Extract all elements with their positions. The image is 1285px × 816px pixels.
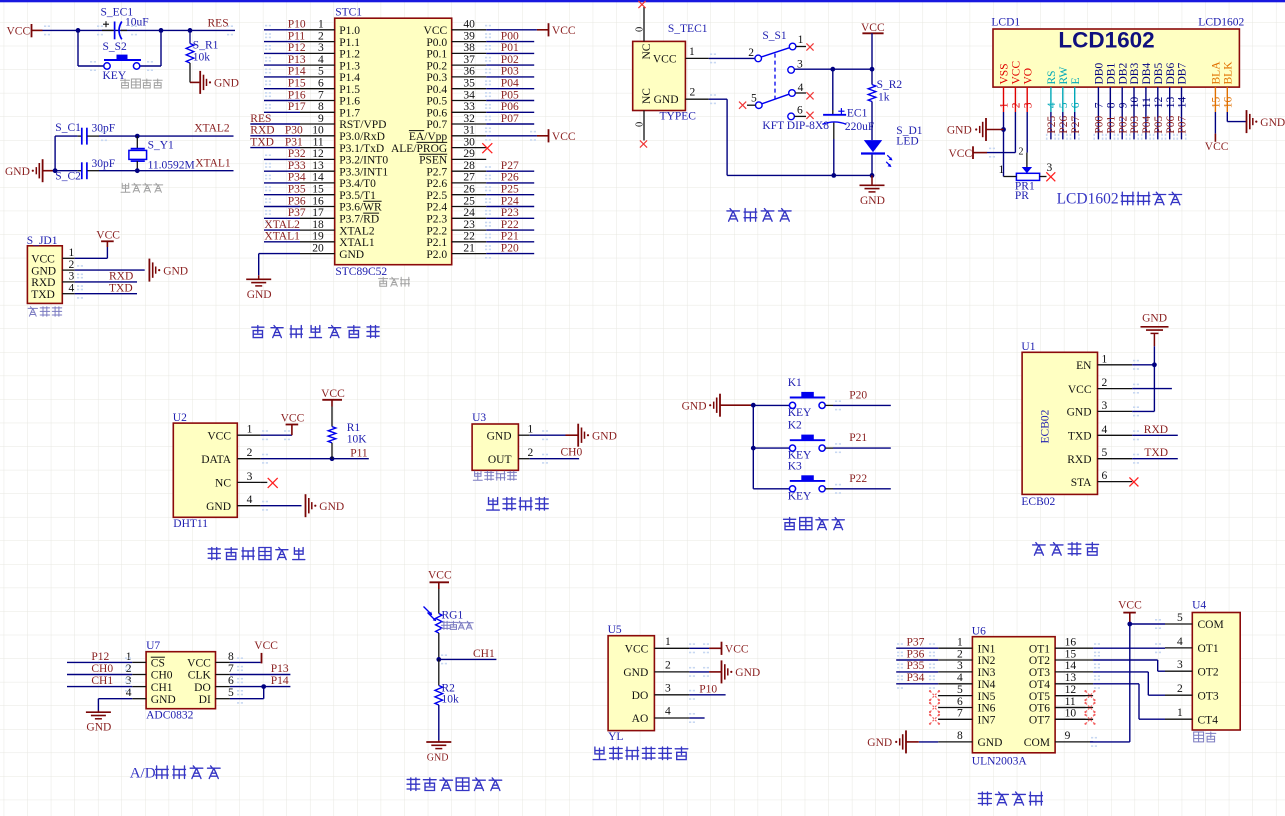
svg-text:P0.6: P0.6 — [426, 108, 447, 120]
LCD1 pin 14 (DB7) — [1177, 63, 1189, 140]
svg-text:RST/VPD: RST/VPD — [339, 119, 386, 131]
svg-text:LCD1602: LCD1602 — [1057, 190, 1119, 207]
svg-text:2: 2 — [126, 663, 132, 675]
svg-text:P1.5: P1.5 — [339, 84, 360, 96]
svg-text:GND: GND — [654, 94, 679, 106]
svg-text:P1.3: P1.3 — [339, 60, 360, 72]
LCD1 pin 4 (RS) — [1046, 70, 1058, 139]
svg-text:KFT DIP-8X8: KFT DIP-8X8 — [762, 120, 829, 132]
module U1 ECB02 body — [1021, 341, 1097, 508]
resistor R1 10K — [328, 407, 367, 459]
svg-text:A/D: A/D — [130, 765, 156, 781]
svg-text:U2: U2 — [173, 412, 187, 424]
net label TXD (download) — [109, 283, 133, 295]
svg-text:P33: P33 — [288, 160, 306, 172]
svg-text:14: 14 — [1065, 660, 1077, 672]
sensor U2 DHT11 body — [173, 412, 238, 530]
svg-text:COM: COM — [1198, 619, 1224, 631]
svg-text:6: 6 — [1102, 470, 1108, 482]
power ground GND (DHT11 pin4) — [306, 494, 345, 517]
STC1 pin 15 (P3.5) — [264, 184, 376, 202]
svg-text:12: 12 — [1065, 684, 1077, 696]
svg-text:16: 16 — [1065, 637, 1077, 649]
capacitor EC1 220uF (electrolytic) — [822, 69, 874, 175]
LCD pin2 VCC wire — [987, 112, 1015, 153]
svg-text:P01: P01 — [1106, 115, 1118, 133]
svg-text:2: 2 — [1177, 683, 1183, 695]
ADC U7 ADC0832 body — [146, 640, 215, 721]
svg-text:P2.0: P2.0 — [426, 249, 447, 261]
LCD1 pin 8 (DB1) — [1106, 63, 1118, 140]
svg-text:VCC: VCC — [254, 640, 278, 652]
svg-text:P31: P31 — [285, 136, 303, 148]
svg-text:STC1: STC1 — [335, 7, 362, 19]
STC1 pin 5 (P1.4) — [264, 66, 360, 84]
svg-text:ALE/PROG: ALE/PROG — [391, 143, 447, 155]
no-ERC cross at S_S1 pin 4 — [806, 92, 813, 99]
svg-text:E: E — [1070, 77, 1082, 84]
svg-text:P07: P07 — [1177, 115, 1189, 133]
svg-text:6: 6 — [318, 78, 324, 90]
U5 pin 2 (GND) — [623, 660, 721, 680]
wire cap-left link — [54, 136, 56, 171]
svg-text:P16: P16 — [288, 89, 306, 101]
svg-text:P27: P27 — [1070, 115, 1082, 133]
push button K2 KEY / net P21 — [753, 420, 891, 462]
STC1 pin 23 (P2.2) — [426, 219, 534, 237]
svg-text:P23: P23 — [501, 207, 519, 219]
wire VCC to U4 COM — [1130, 620, 1165, 628]
svg-text:P2.1: P2.1 — [426, 237, 447, 249]
svg-text:5: 5 — [1177, 612, 1183, 624]
U7 pin 7 (CLK) — [188, 663, 291, 682]
U6 pin 13 (OT4) — [1029, 672, 1165, 719]
svg-text:P06: P06 — [1165, 115, 1177, 133]
svg-text:R1: R1 — [347, 422, 361, 434]
svg-text:38: 38 — [463, 42, 475, 54]
LCD pin3 VO wire to pot wiper — [1026, 112, 1028, 153]
svg-text:VCC: VCC — [861, 22, 885, 34]
svg-text:CH1: CH1 — [151, 682, 173, 694]
no-ERC cross at S_S1 pin 6 — [806, 112, 813, 119]
no-ERC cross at S_S1 pin 5 — [739, 102, 746, 109]
svg-text:9: 9 — [318, 113, 324, 125]
svg-text:1: 1 — [247, 424, 253, 436]
U3 pin 1 (GND) — [487, 424, 566, 443]
svg-text:ULN2003A: ULN2003A — [972, 755, 1028, 767]
svg-text:IN6: IN6 — [978, 703, 996, 715]
STC1 pin 13 (P3.3) — [264, 160, 388, 178]
photoresistor RG1 — [424, 589, 464, 659]
power ground GND (reset) — [190, 71, 239, 94]
U1 pin 3 (GND) — [1067, 400, 1155, 419]
svg-text:10: 10 — [312, 125, 324, 137]
svg-text:OT3: OT3 — [1198, 690, 1219, 702]
svg-text:TXD: TXD — [109, 283, 133, 295]
svg-text:P12: P12 — [288, 42, 306, 54]
svg-text:1: 1 — [1177, 707, 1183, 719]
svg-text:3: 3 — [665, 683, 671, 695]
U6 pin 4 (IN4) — [896, 672, 995, 691]
U1 pin 5 (RXD) — [1067, 447, 1178, 466]
svg-text:RXD: RXD — [31, 277, 55, 289]
U7 pin 1 (CS) — [67, 651, 165, 670]
svg-text:VCC: VCC — [725, 644, 749, 656]
svg-text:4: 4 — [1102, 424, 1108, 436]
svg-text:VCC: VCC — [653, 54, 677, 66]
svg-text:GND: GND — [592, 430, 617, 442]
svg-text:10: 10 — [1065, 708, 1077, 720]
svg-text:2: 2 — [748, 47, 754, 59]
power ground GND (download port) — [149, 259, 188, 282]
svg-text:GND: GND — [427, 753, 449, 764]
svg-text:9: 9 — [1117, 102, 1129, 108]
svg-text:P24: P24 — [501, 195, 519, 207]
title 'LCD1602 display circuit' (LCD1602显示电路) — [1057, 190, 1182, 207]
junction reset-left — [76, 28, 81, 33]
svg-text:2: 2 — [528, 447, 534, 459]
svg-text:XTAL2: XTAL2 — [264, 219, 300, 231]
power ground GND (LCD left) — [947, 118, 1004, 141]
STC1 pin 35 (P0.4) — [426, 78, 534, 96]
svg-text:S_C1: S_C1 — [55, 122, 81, 134]
net label RXD (download) — [109, 271, 133, 283]
no-ERC cross at PR1 pin 3 — [1046, 172, 1055, 181]
svg-text:7: 7 — [957, 708, 963, 720]
svg-text:24: 24 — [463, 207, 475, 219]
svg-text:EA/Vpp: EA/Vpp — [409, 131, 448, 143]
svg-text:TXD: TXD — [31, 289, 55, 301]
svg-text:6: 6 — [957, 696, 963, 708]
svg-text:DB4: DB4 — [1141, 63, 1153, 85]
title 'wind speed detection' (风速检测) — [487, 498, 549, 511]
svg-text:5: 5 — [1102, 447, 1108, 459]
svg-text:22: 22 — [463, 231, 475, 243]
svg-text:IN1: IN1 — [978, 643, 996, 655]
svg-text:RXD: RXD — [250, 125, 274, 137]
U6 pin 16 (OT1) — [1029, 637, 1165, 656]
LCD1 pin 10 (DB3) — [1129, 63, 1141, 140]
power port VCC (download port) — [96, 230, 120, 247]
U4 pin 1 (CT4) — [1165, 707, 1218, 726]
STC1 pin 20 (GND) — [259, 242, 364, 275]
svg-text:P15: P15 — [288, 78, 306, 90]
U5 pin 1 (VCC) — [625, 636, 722, 656]
power ground GND (MCU pin20) — [246, 275, 271, 301]
svg-text:VCC: VCC — [31, 254, 55, 266]
svg-text:P2.5: P2.5 — [426, 190, 447, 202]
svg-text:15: 15 — [312, 184, 324, 196]
svg-text:37: 37 — [463, 54, 475, 66]
svg-text:NC: NC — [215, 478, 231, 490]
STC1 pin 29 (PSEN) — [419, 148, 486, 166]
title 'stepper motor' (步进电机) — [978, 792, 1042, 805]
title 'light collection circuit' (光照采集电路) — [407, 778, 502, 791]
STC1 pin 9 (RST) — [250, 113, 386, 131]
svg-text:U3: U3 — [472, 412, 486, 424]
svg-text:GND: GND — [206, 501, 231, 513]
power port VCC (U5 pin1) — [722, 642, 749, 656]
svg-text:1: 1 — [68, 247, 74, 259]
svg-text:BLA: BLA — [1211, 61, 1223, 85]
comment 'key reset' (按键复位) — [121, 79, 163, 88]
svg-text:P0.2: P0.2 — [426, 60, 447, 72]
U6 pin 12 (OT5) — [1029, 684, 1096, 703]
svg-text:10uF: 10uF — [125, 16, 149, 28]
power ground GND (U3) — [566, 424, 617, 447]
svg-text:GND: GND — [1067, 407, 1092, 419]
svg-text:PR: PR — [1015, 190, 1029, 202]
power port VCC (LCD) — [949, 146, 996, 160]
svg-text:S_R2: S_R2 — [877, 79, 903, 91]
comment 'wind detect' small (风速检测) — [473, 471, 516, 480]
wire node to RES — [161, 26, 235, 34]
svg-text:TXD: TXD — [1144, 447, 1168, 459]
LCD1 pin 2 (VCC) — [1011, 61, 1023, 112]
svg-text:2: 2 — [690, 87, 696, 99]
U4 pin 5 (COM) — [1165, 612, 1224, 631]
svg-text:S_C2: S_C2 — [55, 170, 81, 182]
wire XTAL1 — [99, 170, 234, 172]
power port VCC (U7 pin8) — [254, 640, 278, 663]
svg-text:8: 8 — [228, 651, 234, 663]
svg-text:DO: DO — [194, 682, 211, 694]
svg-text:VCC: VCC — [424, 25, 448, 37]
LCD pin16 BLK wire to GND — [1227, 112, 1246, 122]
U6 pin 14 (OT3) — [1029, 660, 1165, 695]
svg-text:1k: 1k — [878, 92, 890, 104]
svg-text:GND: GND — [151, 694, 176, 706]
comment 'download port' (下载口) — [28, 307, 62, 317]
svg-text:VCC: VCC — [428, 570, 452, 582]
svg-text:VO: VO — [1022, 68, 1034, 85]
STC1 pin 24 (P2.3) — [426, 207, 534, 225]
STC1 pin 31 (EA/Vpp) — [409, 125, 576, 143]
svg-text:15: 15 — [1211, 96, 1223, 108]
svg-text:RS: RS — [1046, 70, 1058, 84]
svg-text:5: 5 — [957, 684, 963, 696]
push button K3 KEY / net P22 — [753, 460, 891, 502]
svg-text:NC: NC — [641, 88, 653, 104]
svg-text:7: 7 — [318, 89, 324, 101]
svg-text:7: 7 — [1094, 102, 1106, 108]
svg-text:P1.6: P1.6 — [339, 96, 360, 108]
resistor S_R2 1k — [868, 69, 902, 140]
junction xtal1 — [135, 168, 140, 173]
svg-text:VSS: VSS — [999, 63, 1011, 84]
svg-text:P17: P17 — [288, 101, 306, 113]
STC1 pin 22 (P2.1) — [426, 231, 534, 249]
svg-text:DHT11: DHT11 — [173, 518, 208, 530]
U2 pin 2 (DATA) — [201, 447, 369, 466]
svg-text:U1: U1 — [1021, 341, 1035, 353]
wire S_S1 pin3 to VCC rail — [794, 68, 872, 70]
STC1 pin 3 (P1.2) — [264, 42, 360, 60]
U6 pin 5 (IN5) — [929, 684, 996, 703]
svg-text:P2.2: P2.2 — [426, 225, 447, 237]
U6 pin 8 (GND) — [919, 730, 1003, 749]
resistor R2 10k — [435, 659, 459, 740]
svg-text:P01: P01 — [501, 42, 519, 54]
svg-text:20: 20 — [312, 242, 324, 254]
junction U1 EN — [1152, 362, 1157, 367]
U7 pin 3 (CH1) — [67, 675, 173, 694]
svg-text:P1.4: P1.4 — [339, 72, 360, 84]
svg-text:DO: DO — [632, 690, 649, 702]
svg-text:ECB02: ECB02 — [1040, 409, 1052, 443]
svg-text:P02: P02 — [501, 54, 519, 66]
S_TEC1 top pin 0 with no-ERC cross — [635, 1, 646, 42]
power port VCC (R1 top) — [321, 388, 345, 406]
svg-text:GND: GND — [86, 722, 111, 734]
svg-text:GND: GND — [163, 265, 188, 277]
svg-text:P34: P34 — [288, 172, 306, 184]
svg-text:TXD: TXD — [1068, 431, 1092, 443]
svg-text:2: 2 — [957, 648, 963, 660]
svg-text:1: 1 — [318, 19, 324, 31]
svg-text:VCC: VCC — [552, 131, 576, 143]
svg-text:4: 4 — [68, 283, 74, 295]
svg-text:GND: GND — [31, 265, 56, 277]
U7 pin 6 (DO) — [194, 675, 290, 694]
LED S_D1 — [861, 125, 923, 176]
svg-text:39: 39 — [463, 30, 475, 42]
junction EC1 bottom — [831, 173, 836, 178]
LCD1 pin 6 (E) — [1070, 77, 1082, 139]
junction key rail K1 — [751, 403, 756, 408]
svg-text:ADC0832: ADC0832 — [146, 709, 194, 721]
svg-text:25: 25 — [463, 195, 475, 207]
svg-text:P03: P03 — [501, 66, 519, 78]
svg-text:4: 4 — [798, 82, 804, 94]
STC1 pin 33 (P0.6) — [426, 101, 534, 119]
svg-text:P25: P25 — [501, 184, 519, 196]
U6 pin 11 (OT6) — [1029, 696, 1096, 715]
svg-text:OT2: OT2 — [1029, 655, 1050, 667]
S_JD1 pin 2 (GND) — [31, 259, 145, 277]
STC1 pin 12 (P3.2) — [264, 148, 388, 166]
svg-text:4: 4 — [126, 687, 132, 699]
svg-text:18: 18 — [312, 219, 324, 231]
svg-text:IN4: IN4 — [978, 679, 996, 691]
svg-text:P32: P32 — [288, 148, 306, 160]
svg-text:XTAL2: XTAL2 — [194, 123, 230, 135]
svg-text:GND: GND — [339, 249, 364, 261]
U6 pin 1 (IN1) — [896, 637, 995, 656]
title 'power circuit' (电源电路) — [727, 209, 791, 222]
svg-text:P00: P00 — [1094, 115, 1106, 133]
U1 pin 2 (VCC) — [1068, 377, 1172, 396]
svg-text:11.0592M: 11.0592M — [148, 160, 195, 172]
U6 pin 2 (IN2) — [896, 648, 995, 667]
svg-text:K1: K1 — [788, 377, 802, 389]
capacitor S_EC1 10uF — [101, 6, 149, 39]
svg-text:5: 5 — [228, 687, 234, 699]
svg-text:6: 6 — [1070, 102, 1082, 108]
svg-text:U7: U7 — [146, 640, 160, 652]
svg-text:17: 17 — [312, 207, 324, 219]
svg-text:VCC: VCC — [96, 230, 120, 242]
svg-text:5: 5 — [318, 66, 324, 78]
net label CH0 — [561, 447, 583, 459]
svg-text:P3.0/RxD: P3.0/RxD — [339, 131, 385, 143]
svg-text:OT6: OT6 — [1029, 703, 1050, 715]
LCD1 pin 13 (DB6) — [1165, 63, 1177, 140]
svg-text:IN7: IN7 — [978, 715, 996, 727]
U4 pin 4 (OT1) — [1165, 636, 1219, 655]
svg-text:P05: P05 — [501, 89, 519, 101]
STC1 pin 30 (ALE/PROG) — [391, 136, 492, 154]
svg-text:11: 11 — [313, 136, 324, 148]
U5 pin 3 (DO) — [632, 683, 726, 703]
svg-text:12: 12 — [1153, 96, 1165, 108]
svg-text:OUT: OUT — [488, 454, 512, 466]
svg-text:1: 1 — [689, 46, 695, 58]
svg-text:GND: GND — [623, 667, 648, 679]
svg-text:4: 4 — [1046, 102, 1058, 108]
svg-text:3: 3 — [247, 471, 253, 483]
svg-text:P27: P27 — [501, 160, 519, 172]
svg-text:35: 35 — [463, 78, 475, 90]
svg-text:OT7: OT7 — [1029, 715, 1050, 727]
svg-text:XTAL2: XTAL2 — [339, 225, 375, 237]
STC1 pin 28 (P2.7) — [426, 160, 534, 178]
svg-text:30pF: 30pF — [92, 123, 116, 135]
svg-text:P37: P37 — [907, 637, 925, 649]
svg-text:GND: GND — [5, 166, 30, 178]
title 'rain detection module' (雨量检测模块) — [593, 747, 688, 760]
svg-text:P22: P22 — [849, 473, 867, 485]
S_TEC1 pin names NC/VCC/GND — [641, 43, 679, 106]
svg-text:P13: P13 — [271, 663, 289, 675]
svg-text:XTAL1: XTAL1 — [195, 157, 231, 169]
STC1 pin 8 (P1.7) — [264, 101, 360, 119]
svg-text:P36: P36 — [907, 648, 925, 660]
svg-text:P20: P20 — [501, 242, 519, 254]
svg-text:GND: GND — [978, 737, 1003, 749]
svg-text:1: 1 — [999, 164, 1005, 176]
title 'key circuit' (按键电路) — [784, 518, 845, 530]
svg-text:PSEN: PSEN — [419, 155, 448, 167]
svg-text:P35: P35 — [288, 184, 306, 196]
U6 pin 7 (IN7) — [929, 708, 996, 727]
svg-text:DB3: DB3 — [1129, 63, 1141, 85]
U2 pin 3 (NC) — [215, 471, 267, 490]
svg-text:26: 26 — [463, 184, 475, 196]
U1 EN-GND vertical wire — [1153, 365, 1155, 412]
U1 pin 1 (EN) — [1076, 353, 1154, 372]
svg-text:P0.1: P0.1 — [426, 49, 447, 61]
svg-text:1: 1 — [126, 651, 132, 663]
title 'A/D conversion circuit' (A/D转换电路) — [130, 765, 220, 781]
svg-text:DB1: DB1 — [1106, 63, 1118, 85]
svg-text:P3.3/INT1: P3.3/INT1 — [339, 166, 388, 178]
comment 'MCU' (单片机) — [379, 277, 410, 286]
svg-text:AO: AO — [632, 713, 649, 725]
svg-text:P0.7: P0.7 — [426, 119, 447, 131]
svg-text:P12: P12 — [91, 651, 109, 663]
svg-text:P2.6: P2.6 — [426, 178, 447, 190]
svg-text:13: 13 — [312, 160, 324, 172]
U6 pin 10 (OT7) — [1029, 708, 1096, 727]
svg-text:DATA: DATA — [201, 454, 231, 466]
svg-text:10k: 10k — [442, 693, 460, 705]
svg-text:29: 29 — [463, 148, 475, 160]
svg-text:VCC: VCC — [1068, 384, 1092, 396]
svg-text:RES: RES — [208, 17, 229, 29]
svg-text:0: 0 — [635, 122, 646, 127]
svg-text:CH1: CH1 — [473, 648, 495, 660]
